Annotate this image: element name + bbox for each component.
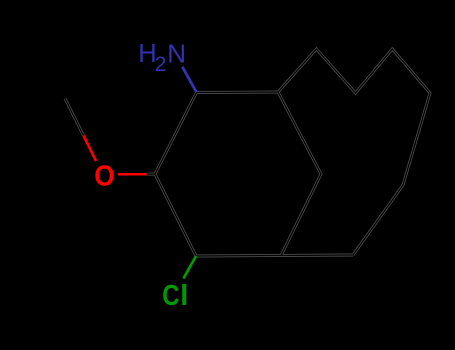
ring A bottom edge extended to P7 <box>196 255 353 256</box>
ring A top edge <box>197 91 279 94</box>
ring A right edges <box>278 92 321 256</box>
Cl label <box>162 280 188 312</box>
O ring bond black part halo <box>147 173 156 176</box>
svg-text:N: N <box>167 38 186 68</box>
methyl bond black half <box>65 99 84 136</box>
O to ring bond red part <box>118 173 147 176</box>
skeleton black cores <box>65 49 430 256</box>
ring A top edge halo <box>197 91 279 94</box>
O to methyl bond red half <box>84 136 97 162</box>
ring A left edges <box>155 93 197 257</box>
ring A right edges halo <box>278 92 321 256</box>
Cl bond <box>183 256 196 279</box>
methyl bond black half halo <box>65 99 84 136</box>
amine bond <box>182 67 196 92</box>
ring A bottom edge halo <box>196 255 353 256</box>
svg-text:O: O <box>94 160 115 192</box>
svg-text:C: C <box>162 280 179 312</box>
zigzag chain halo <box>278 49 430 255</box>
svg-text:2: 2 <box>155 53 167 76</box>
amine label H2N <box>138 38 186 76</box>
zigzag chain top right <box>278 49 430 255</box>
O to ring bond black part <box>147 173 156 175</box>
ring A left edges halo <box>155 93 197 257</box>
skeleton halos (gray AA edges of black bonds) <box>65 49 430 256</box>
svg-text:l: l <box>180 280 188 312</box>
